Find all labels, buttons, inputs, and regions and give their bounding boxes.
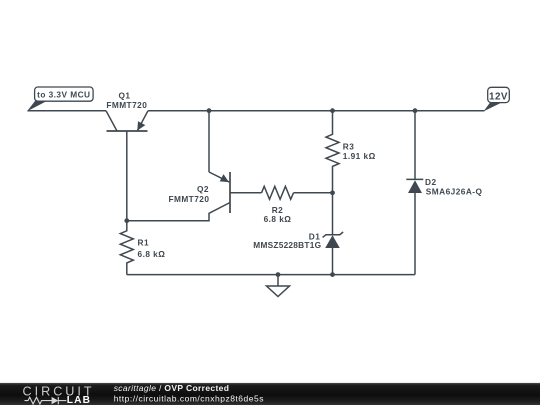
svg-text:FMMT720: FMMT720 <box>168 194 209 204</box>
svg-text:LAB: LAB <box>67 395 91 405</box>
svg-text:6.8 kΩ: 6.8 kΩ <box>138 249 166 259</box>
svg-text:scarittagle / OVP Corrected: scarittagle / OVP Corrected <box>114 383 230 393</box>
svg-text:FMMT720: FMMT720 <box>106 100 147 110</box>
svg-text:Q1: Q1 <box>119 91 131 101</box>
svg-text:6.8 kΩ: 6.8 kΩ <box>264 214 292 224</box>
svg-text:D2: D2 <box>425 177 437 187</box>
svg-text:R3: R3 <box>343 141 355 151</box>
svg-text:MMSZ5228BT1G: MMSZ5228BT1G <box>253 240 321 250</box>
svg-text:Q2: Q2 <box>197 184 209 194</box>
svg-text:SMA6J26A-Q: SMA6J26A-Q <box>426 187 483 197</box>
svg-text:12V: 12V <box>489 91 508 102</box>
svg-text:R1: R1 <box>138 238 150 248</box>
svg-text:http://circuitlab.com/cnxhpz8t: http://circuitlab.com/cnxhpz8t6de5s <box>114 394 264 404</box>
svg-text:1.91 kΩ: 1.91 kΩ <box>343 151 376 161</box>
svg-text:to 3.3V MCU: to 3.3V MCU <box>37 90 90 100</box>
